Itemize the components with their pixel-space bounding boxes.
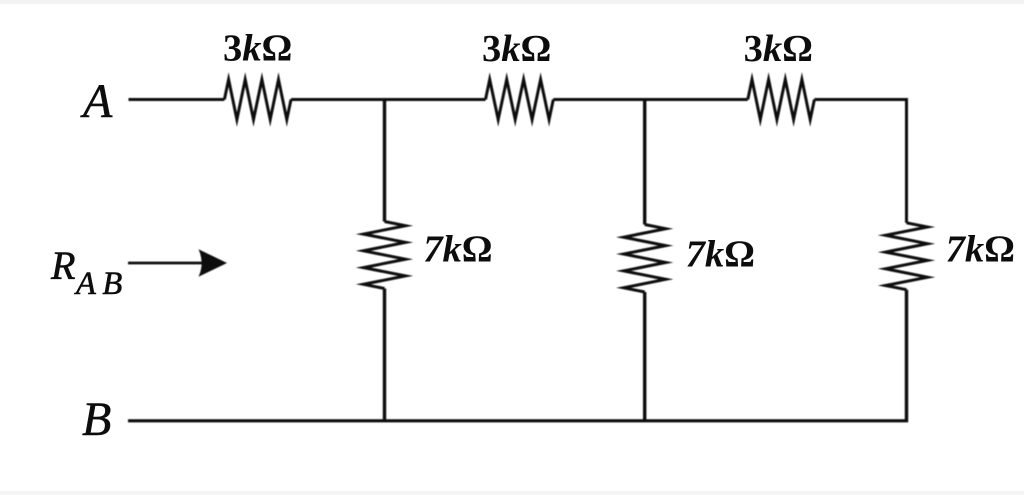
resistor R3 3kOhm (top right): [748, 80, 815, 120]
wire: junction 2 down to R5: [643, 100, 646, 225]
arrow shaft for RAB: [128, 262, 207, 265]
svg-text:AB: AB: [74, 266, 129, 302]
svg-text:A: A: [80, 75, 113, 128]
svg-text:3kΩ: 3kΩ: [744, 28, 813, 70]
wire: R5 down to bottom rail: [643, 292, 646, 422]
wire: R1 to R2 through junction 1: [291, 98, 486, 101]
resistor R2 3kOhm (top middle): [486, 80, 554, 120]
wire: R6 down to bottom rail: [905, 290, 908, 422]
svg-text:7kΩ: 7kΩ: [423, 228, 492, 270]
svg-text:7kΩ: 7kΩ: [946, 228, 1015, 270]
resistor R4 7kOhm (left shunt): [364, 222, 406, 289]
svg-text:3kΩ: 3kΩ: [223, 28, 292, 70]
wire: R2 to R3 through junction 2: [553, 98, 748, 101]
arrowhead of RAB arrow: [199, 249, 228, 277]
svg-text:7kΩ: 7kΩ: [686, 233, 755, 275]
resistor R5 7kOhm (middle shunt): [624, 225, 666, 293]
wire: R4 down to bottom rail: [383, 289, 386, 423]
svg-text:R: R: [50, 243, 75, 288]
wire: junction 1 down to R4: [383, 100, 386, 222]
wire: bottom rail B: [128, 419, 908, 422]
wire: R3 to top-right corner and down to R6: [814, 100, 906, 223]
svg-text:3kΩ: 3kΩ: [482, 28, 551, 70]
scan artifact top edge: [0, 0, 1024, 4]
wire: A to R1: [129, 98, 225, 101]
resistor R6 7kOhm (right shunt): [886, 223, 928, 290]
svg-text:B: B: [82, 393, 111, 446]
resistor R1 3kOhm (top left): [224, 80, 291, 120]
scan artifact bottom edge: [0, 491, 1024, 495]
